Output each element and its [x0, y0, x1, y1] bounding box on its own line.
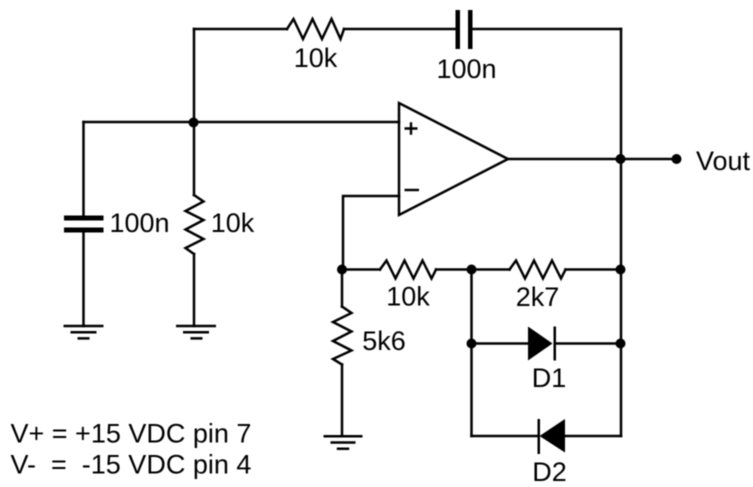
- svg-text:D1: D1: [532, 363, 567, 393]
- svg-text:Vout: Vout: [696, 146, 751, 176]
- svg-text:100n: 100n: [436, 54, 496, 84]
- svg-text:V+ = +15 VDC pin 7: V+ = +15 VDC pin 7: [11, 419, 252, 449]
- svg-text:10k: 10k: [386, 282, 430, 312]
- svg-text:10k: 10k: [294, 43, 338, 73]
- svg-text:10k: 10k: [211, 208, 255, 238]
- svg-text:100n: 100n: [109, 208, 169, 238]
- svg-text:5k6: 5k6: [362, 326, 406, 356]
- svg-text:2k7: 2k7: [516, 282, 560, 312]
- svg-text:D2: D2: [532, 457, 567, 487]
- svg-text:V- = -15 VDC pin 4: V- = -15 VDC pin 4: [11, 449, 252, 479]
